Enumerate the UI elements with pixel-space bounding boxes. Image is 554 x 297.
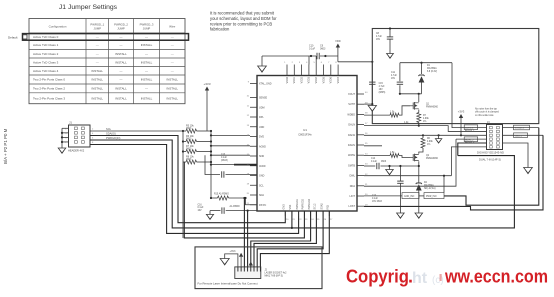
wire pullup left rail [182, 130, 184, 238]
svg-text:J1 Jumper Settings: J1 Jumper Settings [59, 4, 118, 11]
svg-text:---: --- [120, 78, 123, 82]
svg-text:SDA: SDA [259, 194, 264, 197]
resistor R7 4.99k below Q1 [417, 110, 430, 126]
svg-text:16V: 16V [198, 210, 203, 212]
svg-text:No noise from the top: No noise from the top [475, 108, 498, 111]
svg-text:DALN: DALN [348, 124, 355, 127]
svg-text:offs ca pin it is clamped: offs ca pin it is clamped [475, 111, 500, 114]
svg-text:LOST: LOST [348, 205, 355, 208]
svg-text:1%: 1% [423, 121, 426, 123]
svg-text:16V: 16V [379, 89, 384, 91]
svg-text:DALW: DALW [348, 134, 356, 137]
svg-text:16V: 16V [376, 39, 381, 41]
svg-text:Active TxD Class 2: Active TxD Class 2 [33, 52, 59, 56]
wire connector row5 from bus [458, 140, 487, 155]
svg-text:SMTB: SMTB [348, 164, 355, 167]
resistor R8 10k [183, 155, 211, 164]
svg-text:For Remote Laser Internal/case: For Remote Laser Internal/case Do Not Co… [198, 282, 258, 286]
svg-text:GND: GND [283, 204, 286, 210]
wire label to right connector lower [364, 135, 543, 210]
connector J2 laser socket [235, 267, 287, 279]
net label AUX0_2 boxed [456, 137, 487, 142]
svg-text:---: --- [120, 43, 123, 47]
svg-text:(c): (c) [432, 275, 444, 286]
wire IC pin to C15 node [364, 103, 373, 105]
wire VDD to big box left edge [338, 56, 374, 63]
svg-text:PWRGD2: PWRGD2 [302, 198, 305, 209]
svg-text:RST/C: RST/C [259, 204, 266, 207]
svg-text:INSTALL: INSTALL [115, 52, 127, 56]
svg-text:0603: 0603 [320, 47, 326, 50]
svg-text:---: --- [145, 87, 148, 91]
svg-text:0.1uF: 0.1uF [221, 157, 227, 159]
annotation text above connector [475, 108, 500, 117]
power +3V3 above pullups [203, 82, 210, 131]
svg-text:AUX08_1: AUX08_1 [465, 129, 475, 132]
net label box GND_ISO [364, 193, 419, 199]
svg-text:SENSE: SENSE [259, 97, 268, 100]
svg-text:C14: C14 [371, 158, 376, 160]
svg-text:HEADER 4X2: HEADER 4X2 [68, 149, 85, 153]
svg-text:your schematic, layout and BOM: your schematic, layout and BOM for [210, 16, 277, 21]
wire SCL from J1 [90, 127, 183, 131]
annotation box top right [372, 29, 539, 124]
svg-text:4.7uF: 4.7uF [379, 86, 385, 88]
svg-text:0.1uF: 0.1uF [198, 207, 204, 209]
transistor Q2 FMMA6060 [410, 154, 439, 162]
wire top rail right circuit [400, 62, 452, 125]
svg-text:C15: C15 [379, 83, 384, 85]
svg-text:4.7uF: 4.7uF [376, 36, 382, 38]
svg-text:C16: C16 [198, 205, 203, 207]
wire connector right pin to ground [503, 143, 529, 168]
watermark faint tick [440, 274, 442, 281]
resistor R6 10k [183, 135, 211, 144]
IC U1 bottom pins [283, 198, 334, 221]
remote laser box [195, 247, 322, 289]
svg-text:IRQ: IRQ [327, 205, 330, 209]
svg-text:C8051F34x: C8051F34x [298, 133, 312, 137]
resistor R7 10k [183, 145, 211, 154]
svg-text:---: --- [96, 52, 99, 56]
net label AUX0_1 boxed [452, 125, 487, 130]
svg-text:INSTALL: INSTALL [166, 87, 178, 91]
svg-text:GND_ISO: GND_ISO [404, 196, 415, 198]
svg-text:Active TxD Class 4: Active TxD Class 4 [33, 69, 59, 73]
capacitor C15 4.7uF on box-edge wire [369, 62, 385, 104]
resistor R5 10k [183, 124, 211, 133]
svg-text:Configuration: Configuration [49, 25, 67, 29]
power arrow on J2 pin [249, 262, 253, 266]
wire IC pin to J2 pin bundle a [251, 211, 311, 267]
svg-text:JUMP: JUMP [143, 27, 151, 31]
svg-text:0603: 0603 [186, 137, 192, 140]
zener diode D1 [418, 63, 437, 94]
svg-text:SDA2: SDA2 [320, 203, 323, 210]
svg-text:WDBD: WDBD [347, 113, 355, 116]
svg-text:Two 2-Pin Ports Class 0: Two 2-Pin Ports Class 0 [33, 78, 65, 82]
capacitor C10 0.1uF [309, 45, 326, 60]
IC U1 right pins [347, 92, 368, 208]
svg-text:XOUT: XOUT [348, 93, 355, 96]
wire Q1 source node to IC [364, 134, 424, 136]
svg-text:C13: C13 [221, 154, 226, 156]
svg-text:on this solder side: on this solder side [475, 114, 494, 117]
svg-text:VDD1: VDD1 [293, 76, 296, 83]
svg-text:Wire: Wire [169, 25, 175, 29]
svg-text:J1: J1 [69, 121, 72, 125]
svg-text:U1: U1 [303, 128, 307, 132]
wire IC pin to Q1 gate with 1.5k [364, 106, 410, 117]
svg-text:Default: Default [8, 36, 18, 40]
svg-text:VDD: VDD [335, 39, 341, 43]
svg-text:Two 2-Pin Ports Class 3: Two 2-Pin Ports Class 3 [33, 96, 65, 100]
wire IC pin y145 stub [364, 145, 382, 147]
wire J2 ground loop [225, 254, 238, 267]
wire IC right pin to label vertical [364, 139, 456, 186]
svg-text:PWRGD(IO): PWRGD(IO) [106, 136, 121, 140]
wire mid rail right circuit [399, 93, 422, 95]
power VDD arrow [335, 39, 341, 56]
wire reset net down to J2 [243, 197, 245, 267]
wire IC pin to R7 bottom node [364, 122, 420, 127]
svg-text:---: --- [171, 43, 174, 47]
wire IC pin to Q2 gate with 1.5k [364, 152, 410, 158]
svg-text:16V: 16V [391, 78, 396, 80]
capacitor C8 4.7uF inside box [376, 27, 393, 55]
svg-text:UDD: UDD [259, 126, 264, 129]
ground below C12 [397, 212, 405, 218]
svg-text:INSTALL: INSTALL [166, 96, 178, 100]
svg-text:0603: 0603 [186, 127, 192, 130]
svg-text:A1-R5MO: A1-R5MO [230, 205, 240, 208]
svg-text:Active TxD Class 0: Active TxD Class 0 [33, 35, 59, 39]
svg-text:---: --- [145, 52, 148, 56]
net label GND boxed [503, 133, 544, 138]
capacitor C12 [372, 165, 404, 212]
ground below C8 [387, 54, 394, 59]
svg-text:1%: 1% [427, 144, 430, 146]
ground below C15 [368, 104, 376, 111]
svg-text:MAX6MA: MAX6MA [427, 67, 437, 70]
rotated text left margin [3, 128, 8, 164]
svg-text:4.99k: 4.99k [423, 118, 429, 120]
IC U1 C8051F34x body [257, 76, 357, 212]
svg-text:---: --- [171, 60, 174, 64]
svg-text:VDD4: VDD4 [315, 76, 318, 83]
svg-text:DPL: DPL [259, 116, 264, 119]
capacitor C14 0.1uF [364, 158, 400, 169]
svg-text:R15 A1-R5MO: R15 A1-R5MO [214, 193, 229, 196]
svg-text:SDA(IO): SDA(IO) [106, 132, 116, 136]
svg-text:DUAL 7-IN (14P S): DUAL 7-IN (14P S) [479, 158, 501, 162]
ground below J1 [58, 148, 66, 153]
svg-text:0.1uF: 0.1uF [372, 198, 378, 200]
svg-text:Active TxD Class 3: Active TxD Class 3 [33, 60, 59, 64]
svg-text:PWRGD1: PWRGD1 [296, 198, 299, 209]
table J1 jumper settings grid [29, 19, 185, 104]
svg-text:ww.eccn.com: ww.eccn.com [444, 267, 548, 287]
wire IC pin to J2 pin bundle d [260, 211, 329, 267]
capacitor C16 on reset [198, 205, 258, 214]
svg-text:INSTALL: INSTALL [141, 96, 153, 100]
svg-text:INSTALL: INSTALL [141, 60, 153, 64]
wire Q2 source down [400, 161, 420, 181]
svg-text:---: --- [171, 69, 174, 73]
svg-text:SCL: SCL [259, 184, 264, 187]
svg-text:(0603): (0603) [221, 160, 228, 162]
svg-text:MHQ 7-89 (8-P S): MHQ 7-89 (8-P S) [265, 276, 284, 278]
svg-text:Copyrig: Copyrig [346, 267, 409, 287]
svg-text:INSTALL: INSTALL [91, 78, 103, 82]
ground right of C14 [386, 165, 394, 175]
svg-text:ht: ht [412, 270, 428, 287]
ground below D2 [415, 212, 423, 218]
wire IC pin to J2 pin bundle c [257, 211, 323, 267]
svg-text:0603: 0603 [186, 158, 192, 161]
zener diode D2 [416, 181, 436, 212]
svg-text:It is recommended that you sub: It is recommended that you submit [210, 11, 275, 16]
wire PWRGD2 from J1 to IC bottom pin [90, 145, 299, 234]
svg-text:DVD: DVD [259, 136, 264, 139]
net label COMM boxed [503, 125, 539, 130]
capacitor C13 [205, 154, 257, 178]
svg-text:VSS: VSS [289, 204, 292, 209]
svg-text:GND: GND [259, 175, 265, 178]
svg-text:AGND: AGND [259, 145, 266, 148]
svg-text:16V 0603: 16V 0603 [372, 201, 383, 203]
svg-text:.: . [408, 267, 413, 287]
svg-text:COMM_1: COMM_1 [515, 128, 525, 130]
ground in laser box [220, 259, 229, 265]
svg-text:WATE: WATE [348, 154, 355, 157]
svg-text:INSTALL: INSTALL [115, 60, 127, 64]
svg-text:SD(-2V,4A): SD(-2V,4A) [424, 187, 436, 190]
svg-text:DAUN: DAUN [348, 144, 355, 147]
svg-text:VDD7: VDD7 [337, 76, 340, 83]
svg-text:SCL2: SCL2 [314, 203, 317, 210]
table title J1 Jumper Settings [59, 4, 118, 11]
IC U1 top pins [284, 62, 340, 83]
svg-text:---: --- [145, 69, 148, 73]
svg-text:---: --- [96, 35, 99, 39]
svg-text:DWL: DWL [349, 175, 355, 178]
svg-text:---: --- [120, 35, 123, 39]
svg-text:VDD0: VDD0 [286, 76, 289, 83]
svg-text:---: --- [120, 69, 123, 73]
svg-text:fabrication: fabrication [210, 27, 230, 32]
wire bus drops to IC top pins [309, 56, 316, 65]
svg-text:DIGI-KEY ED1543-ND: DIGI-KEY ED1543-ND [477, 151, 504, 155]
svg-text:+3V3: +3V3 [203, 82, 210, 86]
svg-text:---: --- [96, 43, 99, 47]
svg-text:FMMA6060: FMMA6060 [426, 106, 439, 109]
svg-text:VDD5: VDD5 [322, 76, 325, 83]
wire VDD decoupling bus [262, 55, 338, 57]
svg-text:review prior to committing to: review prior to committing to PCB [210, 21, 272, 26]
wire SDA from J1 to IC bottom pin [90, 132, 285, 223]
svg-text:LASER SOCKET 4x2: LASER SOCKET 4x2 [265, 272, 288, 275]
note text fabrication advice [210, 11, 277, 32]
svg-text:INSTALL: INSTALL [91, 87, 103, 91]
wire C16 net down to J2 [247, 210, 249, 267]
svg-text:0603: 0603 [186, 147, 192, 150]
svg-text:PWRGD3: PWRGD3 [308, 198, 311, 209]
connector J3 header [477, 121, 504, 162]
wire J1 left pins to ground rail [61, 128, 69, 148]
net label box PWR_ISO [419, 193, 444, 199]
svg-text:XTAL_GND: XTAL_GND [259, 83, 272, 86]
IC U1 left pins [247, 82, 272, 207]
svg-text:AVDD: AVDD [259, 165, 266, 168]
svg-text:Two 2-Pin Ports Class 2: Two 2-Pin Ports Class 2 [33, 87, 65, 91]
svg-text:GND_1: GND_1 [515, 135, 523, 137]
svg-text:INSTALL: INSTALL [115, 96, 127, 100]
resistor R6 4.99k above Q2 [419, 135, 434, 153]
transistor Q1 FMMA6060 [410, 94, 439, 110]
ground right of connector [524, 168, 533, 174]
svg-text:INSTALL: INSTALL [115, 87, 127, 91]
svg-text:6.8 (6.4V): 6.8 (6.4V) [427, 71, 437, 73]
svg-text:VDD6: VDD6 [330, 76, 333, 83]
wire pullup right rail to IC [210, 130, 250, 198]
svg-text:JUMP: JUMP [93, 27, 101, 31]
svg-text:---: --- [145, 35, 148, 39]
svg-text:INSTALL: INSTALL [91, 69, 103, 73]
svg-text:---: --- [171, 52, 174, 56]
wire IC pin y175 to label [364, 175, 451, 193]
power +3V3 in laser box [230, 250, 244, 267]
capacitor C11 [391, 63, 403, 94]
svg-text:0603: 0603 [381, 161, 387, 163]
connector J1 header 4x2 [65, 121, 94, 153]
watermark Copyrig [346, 267, 413, 287]
svg-text:INSTALL: INSTALL [141, 43, 153, 47]
ground arrow at IC top-left [258, 56, 267, 72]
svg-text:+3V3: +3V3 [230, 250, 237, 253]
wire IC pin to J2 pin bundle b [254, 211, 316, 267]
svg-text:0.1uF: 0.1uF [309, 47, 316, 50]
svg-text:FMMA6060: FMMA6060 [426, 157, 439, 160]
table default row highlight [23, 34, 189, 41]
wire +3V3 rail to Q circuit [423, 134, 487, 136]
wire IC bottom pin2 to bus [291, 211, 293, 229]
svg-text:0.1uF: 0.1uF [371, 161, 377, 163]
svg-text:INSTALL: INSTALL [141, 78, 153, 82]
svg-text:VDD3: VDD3 [308, 76, 311, 83]
wire thick stub into IC [234, 164, 257, 166]
resistor R15 to reset pin [210, 193, 257, 205]
svg-text:LIOT: LIOT [349, 195, 355, 198]
svg-text:JUMP: JUMP [117, 27, 125, 31]
label Default [8, 36, 18, 40]
svg-text:VDD2: VDD2 [300, 76, 303, 83]
svg-text:INSTALL: INSTALL [166, 78, 178, 82]
wire connector row6 [451, 147, 486, 176]
svg-text:4.7uF: 4.7uF [391, 75, 397, 77]
svg-text:INSTALL: INSTALL [91, 96, 103, 100]
svg-text:SUTH: SUTH [348, 103, 355, 106]
svg-text:UDM: UDM [259, 106, 264, 109]
wire resistor rail down to IC bottom pin [184, 162, 304, 238]
svg-text:PWR_ISO: PWR_ISO [426, 196, 437, 198]
text do not connect [198, 282, 258, 286]
svg-text:AUX08_2: AUX08_2 [465, 140, 475, 143]
wire label to right connector upper [444, 128, 539, 206]
svg-text:(0805): (0805) [379, 92, 386, 94]
svg-text:4.99k: 4.99k [427, 141, 433, 143]
svg-text:SND: SND [259, 155, 264, 158]
wire PWRGD1 from J1 to right connector [90, 136, 514, 228]
svg-text:SCL: SCL [106, 127, 112, 131]
svg-text:Active TxD Class 1: Active TxD Class 1 [33, 43, 59, 47]
svg-text:---: --- [171, 35, 174, 39]
svg-text:---: --- [96, 60, 99, 64]
power +3V3 right connector [458, 110, 465, 136]
ground hang on rail [435, 135, 441, 143]
svg-text:DDA: DDA [350, 185, 356, 188]
svg-text:+3V3: +3V3 [458, 110, 465, 114]
svg-text:B/A + P2 P1 P0 M: B/A + P2 P1 P0 M [3, 128, 8, 164]
watermark faint [412, 270, 444, 287]
wire connector row2 [419, 126, 487, 132]
ground below C16 [206, 211, 213, 220]
watermark eccn.com [444, 267, 548, 287]
